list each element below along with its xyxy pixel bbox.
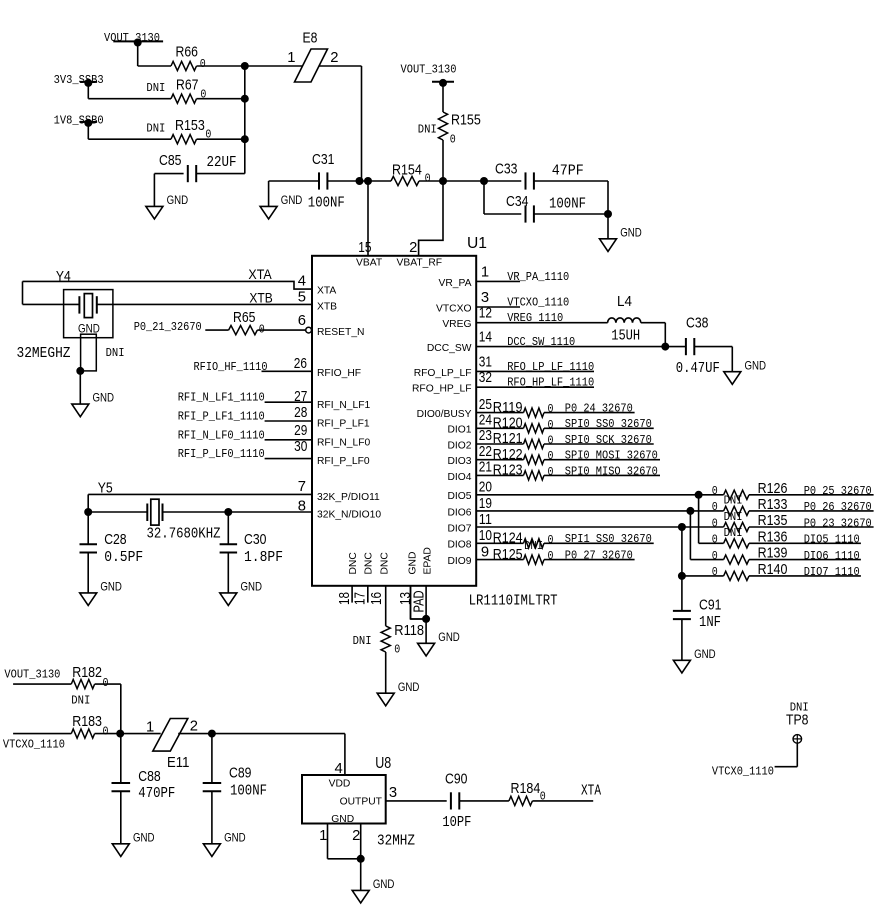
svg-text:DIO5_1110: DIO5_1110	[804, 533, 860, 547]
svg-text:SPI1_SS0_32670: SPI1_SS0_32670	[565, 532, 652, 546]
svg-text:DNI: DNI	[353, 634, 372, 648]
svg-text:DCC_SW_1110: DCC_SW_1110	[507, 335, 575, 349]
svg-text:VREG: VREG	[442, 319, 471, 330]
svg-text:R122: R122	[493, 447, 523, 463]
svg-text:DNI: DNI	[724, 494, 743, 508]
svg-text:15UH: 15UH	[611, 328, 640, 344]
svg-text:3V3_SSB3: 3V3_SSB3	[54, 73, 104, 87]
svg-text:R123: R123	[493, 463, 523, 479]
svg-text:26: 26	[294, 356, 307, 372]
svg-text:Y5: Y5	[98, 480, 113, 496]
svg-text:2: 2	[190, 719, 198, 735]
svg-text:470PF: 470PF	[138, 786, 175, 802]
svg-text:R155: R155	[451, 113, 481, 129]
svg-text:0: 0	[548, 418, 554, 432]
svg-text:L4: L4	[617, 294, 632, 310]
svg-text:DCC_SW: DCC_SW	[427, 343, 472, 354]
svg-text:21: 21	[479, 460, 492, 476]
svg-text:100NF: 100NF	[308, 196, 345, 212]
svg-text:4: 4	[298, 273, 306, 289]
svg-text:0: 0	[548, 549, 554, 563]
svg-text:C34: C34	[506, 194, 528, 210]
svg-text:E11: E11	[167, 755, 189, 771]
svg-text:4: 4	[334, 761, 342, 777]
svg-text:0: 0	[205, 128, 211, 142]
svg-text:0: 0	[712, 533, 718, 547]
svg-text:RFI_N_LF0_1110: RFI_N_LF0_1110	[178, 428, 265, 442]
svg-text:0: 0	[425, 172, 431, 186]
svg-text:RFO_HP_LF: RFO_HP_LF	[412, 384, 472, 395]
svg-text:RFI_N_LF1_1110: RFI_N_LF1_1110	[178, 391, 265, 405]
svg-text:R184: R184	[511, 781, 541, 797]
svg-text:SPI0_MOSI_32670: SPI0_MOSI_32670	[565, 449, 658, 463]
svg-text:2: 2	[352, 828, 360, 844]
svg-text:GND: GND	[281, 193, 303, 207]
svg-text:3: 3	[389, 785, 397, 801]
svg-text:C90: C90	[445, 772, 467, 788]
svg-text:27: 27	[294, 389, 307, 405]
svg-text:VR_PA: VR_PA	[438, 278, 471, 289]
svg-text:SPI0_MISO_32670: SPI0_MISO_32670	[565, 464, 658, 478]
svg-text:VR_PA_1110: VR_PA_1110	[507, 270, 569, 284]
svg-text:C89: C89	[229, 766, 251, 782]
svg-text:R67: R67	[176, 78, 198, 94]
svg-text:GND: GND	[373, 877, 395, 891]
svg-text:11: 11	[479, 512, 492, 528]
svg-text:0: 0	[548, 533, 554, 547]
svg-text:C28: C28	[104, 532, 126, 548]
svg-text:R120: R120	[493, 416, 523, 432]
svg-text:GND: GND	[93, 391, 115, 405]
svg-text:DNI: DNI	[418, 123, 437, 137]
svg-text:VBAT: VBAT	[356, 258, 383, 269]
svg-text:DIO7_1110: DIO7_1110	[804, 565, 860, 579]
svg-text:29: 29	[294, 423, 307, 439]
svg-text:0: 0	[450, 133, 456, 147]
svg-text:32: 32	[479, 370, 492, 386]
svg-text:32.7680KHZ: 32.7680KHZ	[147, 527, 221, 543]
svg-text:DNI: DNI	[724, 510, 743, 524]
svg-text:VOUT_3130: VOUT_3130	[104, 31, 160, 45]
svg-text:0: 0	[103, 725, 109, 739]
svg-text:GND: GND	[331, 814, 354, 825]
svg-text:R135: R135	[758, 513, 788, 529]
svg-text:VTCXO_1110: VTCXO_1110	[507, 295, 569, 309]
svg-text:P0_25_32670: P0_25_32670	[804, 484, 872, 498]
svg-text:RFO_LP_LF_1110: RFO_LP_LF_1110	[507, 360, 594, 374]
svg-text:30: 30	[294, 439, 307, 455]
svg-text:RFIO_HF: RFIO_HF	[317, 368, 361, 379]
svg-text:15: 15	[358, 240, 371, 256]
svg-text:9: 9	[481, 545, 489, 561]
svg-text:DIO7: DIO7	[447, 523, 471, 534]
svg-text:R121: R121	[493, 431, 523, 447]
svg-text:32K_N/DIO10: 32K_N/DIO10	[317, 509, 381, 520]
svg-text:PAD: PAD	[411, 591, 427, 613]
svg-text:R126: R126	[758, 481, 788, 497]
svg-text:XTB: XTB	[249, 290, 272, 306]
svg-text:DIO8: DIO8	[447, 540, 471, 551]
svg-text:GND: GND	[241, 580, 263, 594]
svg-text:DIO6: DIO6	[447, 507, 471, 518]
svg-text:VOUT_3130: VOUT_3130	[401, 63, 457, 77]
svg-text:P0_21_32670: P0_21_32670	[134, 320, 202, 334]
svg-text:100NF: 100NF	[549, 196, 586, 212]
svg-text:DIO1: DIO1	[447, 425, 471, 436]
svg-text:RFI_P_LF1: RFI_P_LF1	[317, 419, 370, 430]
svg-text:DIO4: DIO4	[447, 472, 471, 483]
svg-text:C31: C31	[312, 152, 334, 168]
svg-text:Y4: Y4	[56, 269, 71, 285]
svg-text:VTCXO: VTCXO	[436, 303, 471, 314]
svg-text:22: 22	[479, 444, 492, 460]
svg-text:22UF: 22UF	[207, 155, 237, 171]
svg-text:0: 0	[259, 322, 265, 336]
svg-text:31: 31	[479, 354, 492, 370]
svg-text:20: 20	[479, 480, 492, 496]
svg-text:1.8PF: 1.8PF	[244, 550, 283, 566]
svg-text:DNC: DNC	[380, 552, 391, 575]
svg-text:GND: GND	[694, 647, 716, 661]
svg-text:R65: R65	[233, 310, 255, 326]
svg-text:DNC: DNC	[348, 552, 359, 575]
svg-text:C30: C30	[244, 532, 266, 548]
svg-text:VDD: VDD	[329, 778, 351, 789]
svg-text:E8: E8	[303, 30, 318, 46]
svg-text:28: 28	[294, 405, 307, 421]
svg-text:C85: C85	[159, 153, 181, 169]
svg-text:17: 17	[353, 592, 369, 605]
svg-text:GND: GND	[438, 630, 460, 644]
svg-text:R125: R125	[493, 547, 523, 563]
svg-text:P0_23_32670: P0_23_32670	[804, 516, 872, 530]
svg-text:RFIO_HF_1110: RFIO_HF_1110	[194, 360, 268, 374]
svg-text:10PF: 10PF	[442, 815, 471, 831]
svg-text:GND: GND	[620, 225, 642, 239]
svg-text:P0_27_32670: P0_27_32670	[565, 549, 633, 563]
svg-text:1: 1	[146, 719, 154, 735]
svg-text:0: 0	[540, 790, 546, 804]
svg-text:GND: GND	[224, 830, 246, 844]
svg-text:DNI: DNI	[146, 81, 165, 95]
svg-text:0: 0	[394, 642, 400, 656]
svg-text:U1: U1	[467, 235, 487, 252]
svg-text:RFO_LP_LF: RFO_LP_LF	[414, 368, 472, 379]
svg-text:OUTPUT: OUTPUT	[340, 797, 383, 808]
svg-text:DIO0/BUSY: DIO0/BUSY	[417, 409, 472, 420]
svg-text:C91: C91	[699, 598, 721, 614]
svg-text:1NF: 1NF	[699, 615, 721, 631]
svg-text:R66: R66	[176, 45, 198, 61]
svg-text:0: 0	[548, 465, 554, 479]
svg-text:0: 0	[712, 565, 718, 579]
svg-text:RFO_HP_LF_1110: RFO_HP_LF_1110	[507, 376, 594, 390]
svg-text:32MHZ: 32MHZ	[377, 834, 415, 850]
svg-text:3: 3	[481, 290, 489, 306]
svg-text:1: 1	[287, 50, 295, 66]
svg-text:DNI: DNI	[106, 346, 125, 360]
svg-text:GND: GND	[167, 193, 189, 207]
svg-text:DNI: DNI	[146, 121, 165, 135]
svg-text:R139: R139	[758, 546, 788, 562]
svg-text:1V8_SSB0: 1V8_SSB0	[54, 113, 104, 127]
svg-text:DIO9: DIO9	[447, 556, 471, 567]
svg-text:EPAD: EPAD	[423, 547, 434, 574]
svg-text:XTA: XTA	[581, 784, 601, 800]
svg-text:C88: C88	[138, 769, 160, 785]
svg-text:47PF: 47PF	[552, 164, 584, 180]
svg-text:GND: GND	[133, 830, 155, 844]
svg-text:RFI_N_LF1: RFI_N_LF1	[317, 400, 370, 411]
svg-text:1: 1	[319, 828, 327, 844]
svg-text:RFI_N_LF0: RFI_N_LF0	[317, 437, 370, 448]
svg-text:TP8: TP8	[786, 713, 808, 729]
svg-text:SPI0_SCK_32670: SPI0_SCK_32670	[565, 433, 652, 447]
svg-text:GND: GND	[100, 580, 122, 594]
svg-text:RFI_P_LF1_1110: RFI_P_LF1_1110	[178, 410, 265, 424]
svg-text:R119: R119	[493, 400, 523, 416]
svg-text:24: 24	[479, 413, 492, 429]
svg-text:14: 14	[479, 330, 492, 346]
svg-text:DNI: DNI	[524, 539, 543, 553]
svg-text:0.5PF: 0.5PF	[104, 550, 143, 566]
svg-text:R153: R153	[175, 118, 205, 134]
svg-text:XTB: XTB	[317, 301, 337, 312]
svg-text:1: 1	[481, 264, 489, 280]
svg-text:SPI0_SS0_32670: SPI0_SS0_32670	[565, 417, 652, 431]
svg-text:DNC: DNC	[364, 552, 375, 575]
svg-text:0.47UF: 0.47UF	[676, 361, 720, 377]
svg-text:RESET_N: RESET_N	[317, 327, 365, 338]
svg-text:GND: GND	[398, 680, 420, 694]
svg-text:32K_P/DIO11: 32K_P/DIO11	[317, 492, 380, 503]
svg-text:DNI: DNI	[724, 526, 743, 540]
svg-text:0: 0	[103, 676, 109, 690]
svg-text:C33: C33	[495, 161, 517, 177]
svg-text:R118: R118	[394, 623, 424, 639]
svg-text:P0_24_32670: P0_24_32670	[565, 402, 633, 416]
svg-text:VTCXO_1110: VTCXO_1110	[3, 738, 65, 752]
svg-text:GND: GND	[408, 552, 419, 575]
svg-text:RFI_P_LF0_1110: RFI_P_LF0_1110	[178, 447, 265, 461]
svg-text:U8: U8	[375, 755, 391, 772]
svg-text:12: 12	[479, 306, 492, 322]
svg-text:0: 0	[712, 549, 718, 563]
svg-text:C38: C38	[686, 316, 708, 332]
svg-text:0: 0	[548, 449, 554, 463]
svg-text:0: 0	[712, 484, 718, 498]
svg-text:10: 10	[479, 528, 492, 544]
svg-text:23: 23	[479, 428, 492, 444]
svg-text:0: 0	[200, 88, 206, 102]
svg-text:P0_26_32670: P0_26_32670	[804, 500, 872, 514]
svg-text:XTA: XTA	[248, 266, 272, 282]
svg-text:16: 16	[369, 592, 385, 605]
svg-text:DIO5: DIO5	[447, 491, 471, 502]
svg-text:0: 0	[548, 434, 554, 448]
svg-text:RFI_P_LF0: RFI_P_LF0	[317, 456, 370, 467]
svg-text:R124: R124	[493, 531, 523, 547]
svg-text:0: 0	[712, 516, 718, 530]
svg-text:VREG 1110: VREG 1110	[507, 311, 563, 325]
svg-text:R183: R183	[72, 714, 102, 730]
svg-text:R133: R133	[758, 497, 788, 513]
svg-text:0: 0	[712, 500, 718, 514]
svg-text:VOUT_3130: VOUT_3130	[4, 667, 60, 681]
svg-text:DNI: DNI	[71, 694, 90, 708]
svg-text:DIO2: DIO2	[447, 440, 471, 451]
svg-text:19: 19	[479, 496, 492, 512]
svg-text:2: 2	[330, 50, 338, 66]
svg-text:6: 6	[298, 313, 306, 329]
svg-text:2: 2	[409, 240, 417, 256]
svg-text:32MEGHZ: 32MEGHZ	[17, 346, 71, 362]
svg-text:VBAT_RF: VBAT_RF	[397, 258, 443, 269]
svg-text:R182: R182	[72, 665, 102, 681]
svg-text:GND: GND	[745, 358, 767, 372]
svg-text:XTA: XTA	[317, 286, 336, 297]
svg-text:8: 8	[298, 499, 306, 515]
svg-text:100NF: 100NF	[230, 783, 267, 799]
svg-text:DIO6_1110: DIO6_1110	[804, 549, 860, 563]
svg-text:5: 5	[298, 290, 306, 306]
svg-text:7: 7	[298, 479, 306, 495]
svg-text:25: 25	[479, 397, 492, 413]
svg-text:R136: R136	[758, 529, 788, 545]
svg-text:0: 0	[200, 57, 206, 71]
svg-text:LR1110IMLTRT: LR1110IMLTRT	[469, 591, 558, 609]
svg-text:0: 0	[548, 402, 554, 416]
svg-text:DIO3: DIO3	[447, 456, 471, 467]
svg-text:R154: R154	[392, 162, 422, 178]
svg-text:18: 18	[337, 592, 353, 605]
svg-text:R140: R140	[758, 562, 788, 578]
svg-text:VTCX0_1110: VTCX0_1110	[712, 764, 774, 778]
